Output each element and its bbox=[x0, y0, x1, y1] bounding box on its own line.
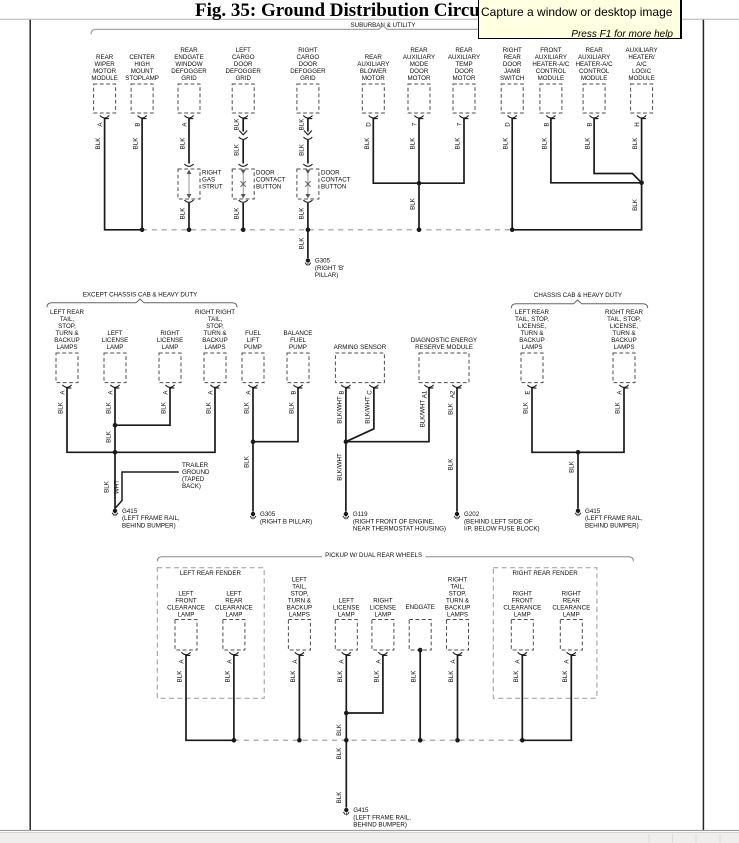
status bar bbox=[0, 830, 739, 843]
svg-text:BLOWER: BLOWER bbox=[360, 68, 387, 75]
svg-text:LAMP: LAMP bbox=[563, 611, 580, 618]
ground G119 (right front of engine near thermostat housing) bbox=[343, 511, 446, 533]
pin A of LEFT FRONT CLEARANCE LAMP bbox=[178, 652, 190, 663]
svg-text:LAMP: LAMP bbox=[225, 611, 242, 618]
pin A of REAR WIPER MOTOR MODULE bbox=[97, 116, 109, 127]
svg-text:BLK: BLK bbox=[244, 455, 251, 468]
svg-text:(TAPED: (TAPED bbox=[182, 476, 205, 483]
svg-text:LEFT: LEFT bbox=[226, 590, 241, 597]
wire BLK auxiliary heater a/c logic module bbox=[632, 118, 642, 183]
pin A of RIGHT TAIL, STOP, TURN & BACKUP LAMPS bbox=[450, 652, 462, 663]
svg-text:CENTER: CENTER bbox=[129, 54, 155, 61]
wire BLK/WHT to ground G119 bbox=[336, 442, 346, 512]
svg-text:CONTROL: CONTROL bbox=[536, 68, 567, 75]
connector box: LEFT TAIL, STOP, TURN & BACKUP LAMPS bbox=[287, 576, 312, 650]
connector box: CENTER HIGH MOUNT STOPLAMP bbox=[125, 54, 159, 113]
svg-text:G305: G305 bbox=[315, 258, 331, 265]
svg-text:RIGHT RIGHT: RIGHT RIGHT bbox=[195, 309, 235, 316]
svg-text:BLK: BLK bbox=[58, 401, 65, 414]
svg-text:BEHIND BUMPER): BEHIND BUMPER) bbox=[353, 822, 407, 829]
svg-text:DOOR: DOOR bbox=[234, 61, 253, 68]
svg-text:STOP,: STOP, bbox=[58, 323, 76, 330]
ground G202 (behind left side of I/P below fuse block) bbox=[454, 511, 539, 533]
svg-text:DOOR: DOOR bbox=[321, 170, 340, 177]
svg-text:CONTACT: CONTACT bbox=[321, 177, 351, 184]
connector box: RIGHT REAR TAIL, STOP, LICENSE, TURN & BACKUP LAMPS bbox=[605, 309, 644, 383]
svg-text:DOOR: DOOR bbox=[503, 61, 522, 68]
svg-text:A: A bbox=[59, 390, 66, 395]
svg-text:MOTOR: MOTOR bbox=[408, 75, 431, 82]
svg-text:H: H bbox=[634, 122, 641, 126]
svg-text:REAR: REAR bbox=[563, 597, 581, 604]
svg-text:BLK: BLK bbox=[290, 670, 297, 683]
svg-text:BLK: BLK bbox=[364, 137, 371, 150]
pin B bbox=[338, 385, 350, 395]
svg-text:DOOR: DOOR bbox=[256, 170, 275, 177]
wire BLK chassis right rear lamps bbox=[578, 388, 624, 453]
pin A bbox=[616, 385, 628, 395]
svg-text:TURN &: TURN & bbox=[288, 597, 312, 604]
ground G415 (left frame rail behind bumper) pickup bbox=[343, 807, 411, 829]
svg-text:MOTOR: MOTOR bbox=[453, 75, 476, 82]
svg-text:BLK: BLK bbox=[448, 402, 455, 415]
section bracket: CHASSIS CAB & HEAVY DUTY bbox=[511, 292, 647, 308]
pin A2 bbox=[449, 385, 461, 398]
svg-text:BACK): BACK) bbox=[182, 483, 201, 490]
svg-text:HIGH: HIGH bbox=[134, 61, 149, 68]
junction node fuel pumps bbox=[251, 439, 256, 444]
svg-text:LEFT REAR FENDER: LEFT REAR FENDER bbox=[180, 570, 242, 577]
connector box: REAR AUXILIARY MODE DOOR MOTOR bbox=[403, 47, 435, 113]
svg-text:ENDGATE: ENDGATE bbox=[405, 604, 434, 611]
svg-text:CARGO: CARGO bbox=[232, 54, 255, 61]
pin A of LEFT REAR CLEARANCE LAMP bbox=[226, 652, 238, 663]
svg-text:AUXILIARY: AUXILIARY bbox=[535, 54, 567, 61]
svg-text:G415: G415 bbox=[585, 508, 601, 515]
wire BLK right rear clearance lamp bbox=[523, 655, 571, 740]
svg-text:GRID: GRID bbox=[300, 75, 316, 82]
svg-text:BEHIND BUMPER): BEHIND BUMPER) bbox=[122, 522, 176, 529]
svg-text:LEFT REAR: LEFT REAR bbox=[515, 309, 549, 316]
pin A bbox=[245, 385, 257, 395]
svg-text:BLK: BLK bbox=[106, 401, 113, 414]
wire BLK/WHT diagnostic energy reserve module pin A1 bbox=[346, 388, 429, 442]
svg-text:GRID: GRID bbox=[235, 75, 251, 82]
svg-text:TAIL, STOP,: TAIL, STOP, bbox=[607, 316, 641, 323]
connector box: LEFT REAR TAIL, STOP, LICENSE, TURN & BACKUP LAMPS bbox=[515, 309, 549, 383]
connector box: RIGHT TAIL, STOP, TURN & BACKUP LAMPS bbox=[445, 576, 470, 650]
wire BLK right rear door jamb switch to bus bbox=[503, 118, 513, 230]
svg-text:A: A bbox=[292, 659, 299, 664]
svg-text:RIGHT REAR: RIGHT REAR bbox=[605, 309, 644, 316]
svg-text:BLK: BLK bbox=[569, 460, 576, 473]
connector box: LEFT FRONT CLEARANCE LAMP bbox=[167, 590, 205, 650]
wire BLK fuel lift pump bbox=[244, 388, 254, 512]
svg-text:BACKUP: BACKUP bbox=[445, 604, 470, 611]
svg-text:RIGHT: RIGHT bbox=[373, 597, 392, 604]
svg-text:7: 7 bbox=[456, 122, 463, 126]
svg-text:JAMB: JAMB bbox=[504, 68, 521, 75]
pin 7 of REAR AUXILIARY TEMP DOOR MOTOR bbox=[456, 116, 468, 127]
svg-text:STOP,: STOP, bbox=[206, 323, 224, 330]
svg-text:(BEHIND LEFT SIDE OF: (BEHIND LEFT SIDE OF bbox=[464, 518, 533, 525]
svg-text:BLK: BLK bbox=[523, 401, 530, 414]
svg-text:A: A bbox=[245, 390, 252, 395]
junction node tail lamp group bbox=[113, 450, 118, 455]
svg-text:REAR: REAR bbox=[455, 47, 473, 54]
svg-text:LAMP: LAMP bbox=[178, 611, 195, 618]
svg-text:BLK: BLK bbox=[410, 197, 417, 210]
svg-text:TAIL, STOP,: TAIL, STOP, bbox=[515, 316, 549, 323]
junction node heater modules bbox=[639, 181, 644, 186]
svg-text:(LEFT FRAME RAIL,: (LEFT FRAME RAIL, bbox=[353, 814, 411, 821]
svg-text:WIPER: WIPER bbox=[94, 61, 115, 68]
svg-text:BLK: BLK bbox=[632, 137, 639, 150]
svg-text:CHASSIS CAB & HEAVY DUTY: CHASSIS CAB & HEAVY DUTY bbox=[534, 292, 622, 299]
svg-text:STOP,: STOP, bbox=[449, 590, 467, 597]
svg-text:A: A bbox=[97, 122, 104, 127]
svg-text:BEHIND BUMPER): BEHIND BUMPER) bbox=[585, 522, 639, 529]
connector box: RIGHT REAR CLEARANCE LAMP bbox=[552, 590, 590, 650]
pin A1 bbox=[421, 385, 433, 398]
svg-text:MODULE: MODULE bbox=[581, 75, 607, 82]
svg-text:BLK: BLK bbox=[411, 670, 418, 683]
svg-text:AUXILIARY: AUXILIARY bbox=[448, 54, 480, 61]
pin A of RIGHT LICENSE LAMP bbox=[375, 652, 387, 663]
wire BLK front auxiliary heater-a/c control module bbox=[541, 118, 641, 183]
wire BLK chassis junction to ground G415 bbox=[569, 452, 579, 508]
svg-text:BLK: BLK bbox=[95, 137, 102, 150]
svg-text:LAMP: LAMP bbox=[374, 611, 391, 618]
svg-text:BLK: BLK bbox=[161, 401, 168, 414]
svg-text:BLK/WHT: BLK/WHT bbox=[364, 396, 371, 424]
svg-text:REAR: REAR bbox=[365, 54, 383, 61]
connector box: REAR AUXILIARY BLOWER MOTOR bbox=[357, 54, 389, 113]
svg-text:WINDOW: WINDOW bbox=[175, 61, 202, 68]
svg-text:D: D bbox=[366, 122, 373, 127]
svg-text:B: B bbox=[587, 122, 594, 126]
svg-text:BLK: BLK bbox=[373, 670, 380, 683]
svg-text:WHT: WHT bbox=[113, 480, 120, 494]
pin A of REAR ENDGATE WINDOW DEFOGGER GRID bbox=[181, 116, 193, 127]
svg-text:TURN &: TURN & bbox=[520, 330, 544, 337]
pin 7 of REAR AUXILIARY MODE DOOR MOTOR bbox=[411, 116, 423, 127]
pin C bbox=[366, 385, 378, 395]
svg-text:GRID: GRID bbox=[181, 75, 197, 82]
wire WHT trailer ground (taped back) bbox=[113, 462, 210, 509]
svg-text:TEMP: TEMP bbox=[455, 61, 472, 68]
svg-text:G415: G415 bbox=[353, 807, 369, 814]
svg-text:D: D bbox=[505, 122, 512, 127]
svg-text:A: A bbox=[339, 659, 346, 664]
connector box: FUEL LIFT PUMP bbox=[242, 330, 264, 383]
svg-text:AUXILIARY: AUXILIARY bbox=[578, 54, 610, 61]
ground G415 (left frame rail behind bumper) chassis bbox=[575, 508, 643, 530]
connector box: REAR ENDGATE WINDOW DEFOGGER GRID bbox=[171, 47, 207, 113]
junction node rear auxiliary motors bbox=[417, 181, 422, 186]
svg-text:REAR: REAR bbox=[180, 47, 198, 54]
svg-text:A: A bbox=[181, 122, 188, 127]
wire BLK right tail stop turn backup lamps bbox=[448, 655, 458, 740]
svg-text:A: A bbox=[564, 659, 571, 664]
junction node license lamps bottom bbox=[344, 711, 349, 716]
connector box: REAR AUXILIARY TEMP DOOR MOTOR bbox=[448, 47, 480, 113]
svg-text:RIGHT: RIGHT bbox=[298, 47, 317, 54]
svg-text:BLK: BLK bbox=[234, 207, 241, 220]
connector box: RIGHT LICENSE LAMP bbox=[370, 597, 396, 650]
svg-text:7: 7 bbox=[411, 122, 418, 126]
svg-text:LEFT: LEFT bbox=[107, 330, 122, 337]
wire BLK left rear tail stop turn backup lamps bbox=[58, 388, 115, 453]
connector box: REAR AUXILIARY HEATER-A/C CONTROL MODULE bbox=[576, 47, 614, 113]
svg-text:B: B bbox=[290, 390, 297, 394]
svg-text:CONTROL: CONTROL bbox=[579, 68, 610, 75]
svg-text:LICENSE,: LICENSE, bbox=[610, 323, 638, 330]
svg-text:RIGHT: RIGHT bbox=[160, 330, 179, 337]
svg-text:LAMPS: LAMPS bbox=[522, 344, 543, 351]
svg-text:BLK: BLK bbox=[336, 747, 343, 760]
svg-text:A: A bbox=[375, 659, 382, 664]
pin H of AUXILIARY HEATER/ A/C LOGIC MODULE bbox=[634, 116, 646, 127]
connector box: LEFT LICENSE LAMP bbox=[333, 597, 359, 650]
svg-text:MODULE: MODULE bbox=[628, 75, 654, 82]
wire BLK rear endgate window defogger grid to gas strut bbox=[180, 118, 194, 166]
wire BLK left door contact button to bus bbox=[234, 200, 248, 230]
ground G305 (right 'B' pillar) bbox=[305, 258, 344, 280]
wire BLK right door contact button to bus bbox=[298, 200, 312, 230]
pin B of CENTER HIGH MOUNT STOPLAMP bbox=[135, 116, 147, 127]
svg-text:BLK: BLK bbox=[513, 670, 520, 683]
svg-text:DEFOGGER: DEFOGGER bbox=[171, 68, 207, 75]
svg-text:BLK: BLK bbox=[562, 670, 569, 683]
svg-text:BLK: BLK bbox=[541, 137, 548, 150]
svg-text:A1: A1 bbox=[421, 390, 428, 398]
wire BLK right license lamp bbox=[346, 655, 383, 713]
wire BLK rear auxiliary heater-a/c control module bbox=[585, 118, 642, 183]
svg-text:AUXILIARY: AUXILIARY bbox=[625, 47, 657, 54]
svg-text:GAS: GAS bbox=[202, 177, 215, 184]
wire BLK aux motor junction to bus bbox=[410, 183, 420, 230]
svg-text:B: B bbox=[543, 122, 550, 126]
svg-text:A: A bbox=[178, 659, 185, 664]
svg-text:PILLAR): PILLAR) bbox=[315, 272, 338, 279]
wire BLK gas strut to bus bbox=[180, 200, 194, 230]
svg-text:REAR: REAR bbox=[225, 597, 243, 604]
svg-text:HEATER-A/C: HEATER-A/C bbox=[576, 61, 614, 68]
svg-text:CARGO: CARGO bbox=[297, 54, 320, 61]
svg-text:(RIGHT B PILLAR): (RIGHT B PILLAR) bbox=[260, 518, 312, 525]
inline component: DOOR CONTACT BUTTON (left) bbox=[232, 169, 285, 199]
svg-text:PICKUP W/ DUAL REAR WHEELS: PICKUP W/ DUAL REAR WHEELS bbox=[325, 552, 422, 559]
svg-text:LAMP: LAMP bbox=[162, 344, 179, 351]
wire BLK/WHT arming sensor pin C bbox=[346, 388, 374, 442]
svg-text:BLK: BLK bbox=[298, 143, 305, 156]
svg-text:A: A bbox=[616, 390, 623, 395]
connector box: BALANCE FUEL PUMP bbox=[284, 330, 313, 383]
svg-text:BACKUP: BACKUP bbox=[54, 337, 79, 344]
connector box: FRONT AUXILIARY HEATER-A/C CONTROL MODULE bbox=[532, 47, 570, 113]
svg-text:G119: G119 bbox=[353, 511, 368, 518]
svg-text:REAR: REAR bbox=[96, 54, 114, 61]
svg-text:RIGHT: RIGHT bbox=[513, 590, 532, 597]
svg-text:LICENSE: LICENSE bbox=[333, 604, 359, 611]
svg-text:FUEL: FUEL bbox=[290, 337, 306, 344]
junction nodes on bottom bus bbox=[232, 738, 525, 743]
svg-text:DEFOGGER: DEFOGGER bbox=[290, 68, 326, 75]
pin A of RIGHT REAR CLEARANCE LAMP bbox=[564, 652, 576, 663]
wire BLK left rear clearance lamp bbox=[224, 655, 234, 740]
svg-text:BLK: BLK bbox=[206, 401, 213, 414]
svg-text:FRONT: FRONT bbox=[512, 597, 534, 604]
pin A of LEFT LICENSE LAMP bbox=[339, 652, 351, 663]
svg-text:BLK: BLK bbox=[298, 118, 305, 131]
svg-text:BALANCE: BALANCE bbox=[284, 330, 313, 337]
pin A of RIGHT FRONT CLEARANCE LAMP bbox=[515, 652, 527, 663]
svg-text:B: B bbox=[338, 390, 345, 394]
connector box: REAR WIPER MOTOR MODULE bbox=[91, 54, 117, 113]
svg-text:LEFT: LEFT bbox=[178, 590, 193, 597]
svg-text:BLK: BLK bbox=[448, 670, 455, 683]
svg-text:EXCEPT CHASSIS CAB & HEAVY DUT: EXCEPT CHASSIS CAB & HEAVY DUTY bbox=[83, 291, 198, 298]
wire BLK balance fuel pump bbox=[253, 388, 298, 442]
svg-text:LEFT: LEFT bbox=[236, 47, 251, 54]
svg-text:CONTACT: CONTACT bbox=[256, 177, 286, 184]
svg-text:DEFOGGER: DEFOGGER bbox=[225, 68, 261, 75]
svg-text:TURN &: TURN & bbox=[55, 330, 79, 337]
svg-text:LOGIC: LOGIC bbox=[632, 68, 652, 75]
inline connector on left cargo door wire bbox=[239, 131, 248, 140]
svg-text:SWITCH: SWITCH bbox=[500, 75, 524, 82]
svg-text:TURN &: TURN & bbox=[203, 330, 227, 337]
wire BLK right license lamp bbox=[115, 388, 170, 426]
svg-text:BLK: BLK bbox=[503, 137, 510, 150]
pin A bbox=[162, 385, 174, 395]
svg-text:DOOR: DOOR bbox=[410, 68, 429, 75]
junction node license lamps bbox=[113, 423, 118, 428]
junction nodes on top bus bbox=[140, 228, 515, 233]
wire BLK left license lamp bbox=[106, 388, 116, 453]
wire BLK tail lamp group to ground G415 bbox=[104, 452, 115, 508]
svg-text:BLK: BLK bbox=[410, 137, 417, 150]
svg-text:BUTTON: BUTTON bbox=[256, 184, 281, 191]
svg-text:A: A bbox=[207, 390, 214, 395]
svg-text:CLEARANCE: CLEARANCE bbox=[552, 604, 590, 611]
svg-text:LAMP: LAMP bbox=[514, 611, 531, 618]
connector box: RIGHT LICENSE LAMP bbox=[157, 330, 183, 383]
svg-text:MODE: MODE bbox=[410, 61, 429, 68]
svg-text:RIGHT: RIGHT bbox=[202, 170, 221, 177]
svg-text:BLK: BLK bbox=[298, 207, 305, 220]
pin E bbox=[524, 385, 536, 395]
svg-text:TAIL,: TAIL, bbox=[60, 316, 75, 323]
svg-text:BLK: BLK bbox=[337, 670, 344, 683]
svg-text:RIGHT: RIGHT bbox=[503, 47, 522, 54]
dashed enclosure: RIGHT REAR FENDER bbox=[493, 568, 597, 698]
page separator line under title bbox=[0, 18, 739, 20]
svg-text:BACKUP: BACKUP bbox=[287, 604, 312, 611]
svg-text:CLEARANCE: CLEARANCE bbox=[167, 604, 205, 611]
section bracket: EXCEPT CHASSIS CAB & HEAVY DUTY bbox=[47, 291, 237, 307]
svg-text:LAMPS: LAMPS bbox=[614, 344, 635, 351]
ground G305 (right B pillar) bbox=[250, 511, 312, 525]
svg-text:(LEFT FRAME RAIL,: (LEFT FRAME RAIL, bbox=[585, 515, 643, 522]
pin B of REAR AUXILIARY HEATER-A/C CONTROL MODULE bbox=[587, 116, 599, 127]
svg-text:TAIL,: TAIL, bbox=[292, 583, 307, 590]
svg-text:BLK: BLK bbox=[234, 118, 241, 131]
wire BLK left tail stop turn backup lamps bbox=[290, 655, 300, 740]
svg-text:G415: G415 bbox=[122, 508, 138, 515]
svg-text:C: C bbox=[366, 390, 373, 395]
svg-text:E: E bbox=[524, 390, 531, 394]
svg-text:LAMPS: LAMPS bbox=[205, 344, 226, 351]
svg-text:LAMP: LAMP bbox=[107, 344, 124, 351]
svg-text:RIGHT: RIGHT bbox=[448, 576, 467, 583]
pin A bbox=[207, 385, 219, 395]
svg-text:MOUNT: MOUNT bbox=[131, 68, 154, 75]
svg-text:BLK: BLK bbox=[585, 137, 592, 150]
top ground bus (dashed) bbox=[142, 229, 512, 231]
wire BLK to right door contact button bbox=[298, 140, 312, 166]
pin exit of RIGHT CARGO DOOR DEFOGGER GRID bbox=[303, 116, 312, 119]
svg-text:FRONT: FRONT bbox=[540, 47, 562, 54]
svg-text:BLK: BLK bbox=[180, 207, 187, 220]
wire BLK diagnostic energy reserve module pin A2 to ground G202 bbox=[448, 388, 458, 512]
svg-text:G305: G305 bbox=[260, 511, 276, 518]
wire BLK to left door contact button bbox=[234, 140, 248, 166]
wire BLK left license lamp bbox=[337, 655, 347, 713]
connector box: LEFT CARGO DOOR DEFOGGER GRID bbox=[225, 47, 261, 113]
svg-text:BLK: BLK bbox=[448, 458, 455, 471]
svg-text:LICENSE: LICENSE bbox=[102, 337, 128, 344]
wire BLK bottom bus to ground G415 bbox=[336, 740, 346, 807]
svg-text:HEATER-A/C: HEATER-A/C bbox=[532, 61, 570, 68]
connector box: RIGHT RIGHT TAIL, STOP, TURN & BACKUP LAMPS bbox=[195, 309, 235, 383]
svg-text:PUMP: PUMP bbox=[289, 344, 307, 351]
svg-text:LAMPS: LAMPS bbox=[289, 611, 310, 618]
connector box: RIGHT REAR DOOR JAMB SWITCH bbox=[500, 47, 524, 113]
svg-text:PUMP: PUMP bbox=[244, 344, 262, 351]
svg-text:BLK/WHT: BLK/WHT bbox=[420, 400, 427, 428]
svg-text:REAR: REAR bbox=[410, 47, 428, 54]
svg-text:LAMP: LAMP bbox=[338, 611, 355, 618]
wire BLK rear wiper motor module to bus bbox=[95, 118, 141, 230]
svg-text:LEFT: LEFT bbox=[292, 576, 307, 583]
svg-text:A2: A2 bbox=[449, 390, 456, 398]
svg-text:REAR: REAR bbox=[504, 54, 522, 61]
svg-text:BLK: BLK bbox=[234, 143, 241, 156]
wire BLK bus to ground G305 bbox=[298, 230, 308, 258]
svg-text:TRAILER: TRAILER bbox=[182, 462, 209, 469]
svg-text:RIGHT REAR FENDER: RIGHT REAR FENDER bbox=[512, 570, 578, 577]
svg-text:BLK: BLK bbox=[133, 137, 140, 150]
wire BLK heater module junction to bus bbox=[512, 183, 641, 230]
section bracket: PICKUP W/ DUAL REAR WHEELS bbox=[157, 552, 633, 562]
wire BLK right right tail stop turn backup lamps bbox=[115, 388, 215, 453]
pin D of REAR AUXILIARY BLOWER MOTOR bbox=[366, 116, 378, 127]
wire BLK chassis left rear lamps bbox=[523, 388, 579, 453]
svg-text:A: A bbox=[226, 659, 233, 664]
ground G415 (left frame rail behind bumper) bbox=[112, 508, 180, 530]
svg-text:A: A bbox=[450, 659, 457, 664]
svg-text:LEFT: LEFT bbox=[339, 597, 354, 604]
pin D of RIGHT REAR DOOR JAMB SWITCH bbox=[505, 116, 517, 127]
svg-text:LIFT: LIFT bbox=[247, 337, 260, 344]
bottom ground bus (dashed) bbox=[234, 739, 522, 741]
svg-text:BLK: BLK bbox=[289, 401, 296, 414]
figure title bbox=[195, 0, 491, 22]
svg-text:(RIGHT 'B': (RIGHT 'B' bbox=[315, 265, 344, 272]
svg-text:TURN &: TURN & bbox=[446, 597, 470, 604]
